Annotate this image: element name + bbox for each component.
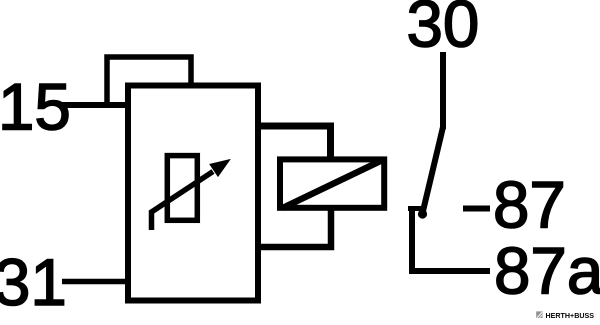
relay coil K1 xyxy=(280,159,384,207)
svg-text:30: 30 xyxy=(407,0,480,61)
wire terminal 31 to control unit xyxy=(62,279,130,285)
wire fixed contact to terminal 87a xyxy=(412,209,490,272)
watermark logo xyxy=(536,311,543,318)
wire terminal 30 to switch xyxy=(440,52,446,129)
svg-text:15: 15 xyxy=(0,71,71,144)
wire terminal 15 to control unit xyxy=(61,102,130,108)
variable resistor arrowhead xyxy=(211,161,229,176)
switch movable arm xyxy=(423,127,443,211)
control unit box xyxy=(128,86,258,301)
wire bridge loop over control unit xyxy=(107,57,191,105)
fixed contact stub xyxy=(408,206,426,211)
wire control unit to relay coil lower xyxy=(258,206,331,247)
dash marker at terminal 87 xyxy=(463,206,490,212)
switch arm contact point xyxy=(418,209,427,218)
svg-text:31: 31 xyxy=(0,246,67,319)
wire control unit to relay coil upper xyxy=(258,126,331,158)
svg-text:87a: 87a xyxy=(494,235,600,308)
variable resistor element rect xyxy=(167,156,197,221)
variable resistor arrow shaft xyxy=(152,172,214,231)
relay coil diagonal xyxy=(283,161,382,209)
svg-text:87: 87 xyxy=(493,169,566,242)
svg-text:HERTH+BUSS: HERTH+BUSS xyxy=(546,311,595,320)
